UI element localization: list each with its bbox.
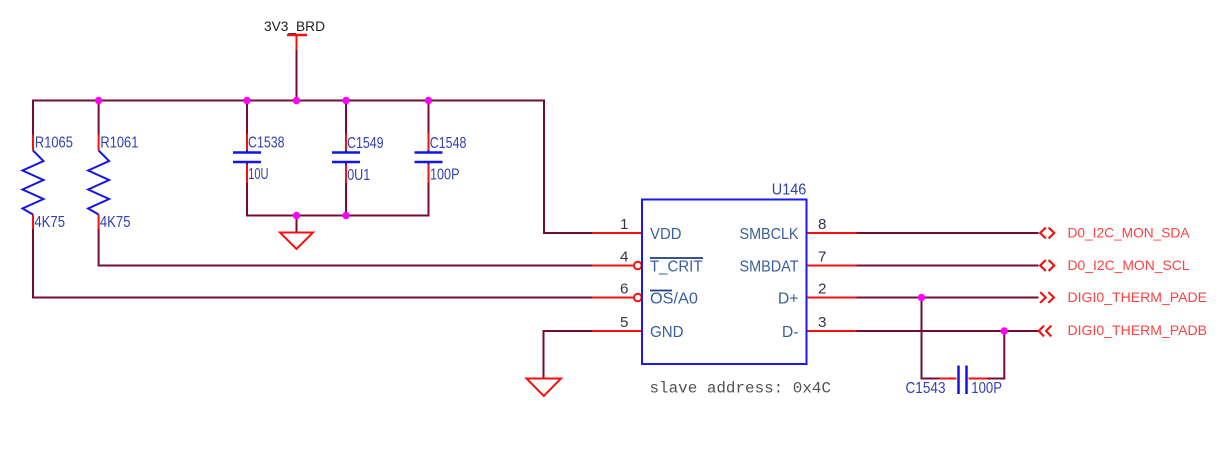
- svg-text:C1538: C1538: [248, 135, 285, 152]
- svg-text:0U1: 0U1: [347, 167, 370, 184]
- svg-text:10U: 10U: [248, 166, 268, 183]
- svg-text:5: 5: [620, 314, 628, 331]
- svg-text:slave address: 0x4C: slave address: 0x4C: [650, 379, 832, 397]
- svg-text:SMBDAT: SMBDAT: [740, 259, 799, 276]
- svg-text:3V3_BRD: 3V3_BRD: [264, 19, 325, 34]
- svg-text:OS/A0: OS/A0: [650, 291, 698, 308]
- svg-text:100P: 100P: [430, 167, 460, 184]
- svg-text:4: 4: [620, 249, 628, 266]
- svg-text:SMBCLK: SMBCLK: [740, 226, 799, 243]
- svg-text:DIGI0_THERM_PADB: DIGI0_THERM_PADB: [1068, 323, 1208, 338]
- svg-text:2: 2: [818, 281, 826, 298]
- svg-text:D0_I2C_MON_SDA: D0_I2C_MON_SDA: [1068, 225, 1191, 240]
- svg-text:1: 1: [620, 216, 628, 233]
- svg-text:6: 6: [620, 281, 628, 298]
- svg-text:R1065: R1065: [35, 135, 73, 152]
- svg-text:C1543: C1543: [906, 380, 946, 397]
- svg-text:8: 8: [818, 216, 826, 233]
- svg-text:100P: 100P: [971, 380, 1002, 397]
- svg-text:GND: GND: [650, 324, 684, 341]
- svg-text:C1549: C1549: [347, 135, 384, 152]
- svg-text:VDD: VDD: [650, 226, 682, 243]
- svg-text:DIGI0_THERM_PADE: DIGI0_THERM_PADE: [1068, 290, 1208, 305]
- svg-text:3: 3: [818, 314, 826, 331]
- svg-text:R1061: R1061: [100, 135, 138, 152]
- svg-text:D0_I2C_MON_SCL: D0_I2C_MON_SCL: [1068, 258, 1190, 273]
- svg-text:C1548: C1548: [430, 135, 467, 152]
- svg-text:T_CRIT: T_CRIT: [650, 259, 703, 276]
- svg-text:D-: D-: [782, 324, 799, 341]
- svg-text:U146: U146: [772, 181, 807, 198]
- svg-text:4K75: 4K75: [34, 214, 65, 231]
- svg-text:4K75: 4K75: [100, 214, 131, 231]
- svg-text:D+: D+: [778, 291, 799, 308]
- svg-text:7: 7: [818, 249, 826, 266]
